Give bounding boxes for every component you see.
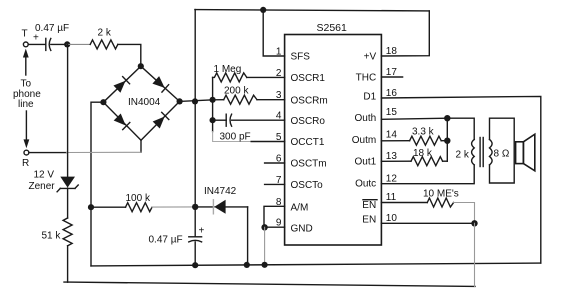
wire pin18 +V to top rail (381, 11, 429, 56)
svg-text:1 Meg: 1 Meg (214, 64, 242, 75)
svg-text:100 k: 100 k (126, 193, 151, 204)
svg-text:A/M: A/M (291, 203, 309, 214)
wire pin8 A/M (264, 206, 285, 227)
wire bottom return line (64, 282, 475, 286)
transformer secondary winding (490, 139, 493, 165)
resistor 2 k (90, 40, 118, 49)
wire OSC vertical bus (212, 77, 214, 131)
svg-text:Outc: Outc (355, 178, 376, 189)
svg-text:EN: EN (362, 200, 376, 211)
node cap-rail junction dot (192, 262, 198, 268)
svg-text:0.47 µF: 0.47 µF (149, 235, 183, 246)
node GND-rail junction dot (262, 262, 268, 268)
svg-text:EN: EN (362, 215, 376, 226)
bridge diode top-right (IN4004) (152, 76, 168, 92)
label 12 V Zener (29, 170, 56, 193)
svg-text:9: 9 (276, 218, 282, 229)
svg-text:SFS: SFS (291, 52, 311, 63)
svg-text:12: 12 (386, 173, 398, 184)
wire capacitor to node A (51, 43, 67, 45)
bridge diode top-left (IN4004) (113, 77, 129, 93)
svg-text:12 V: 12 V (34, 170, 55, 181)
zener diode 12V (57, 177, 78, 192)
svg-text:3.3 k: 3.3 k (412, 127, 435, 138)
wire bridge edge bottom-right (141, 101, 180, 140)
wire secondary loop (490, 118, 515, 183)
wire R to zener bus (29, 152, 66, 154)
svg-text:+: + (199, 226, 205, 237)
wire ground rail (91, 263, 541, 266)
node bridge left junction dot (100, 99, 106, 105)
svg-text:T: T (22, 29, 28, 40)
node 300pF junction dot (210, 117, 216, 123)
node 100k junction dot (88, 204, 94, 210)
wire 51k to bottom return (67, 246, 69, 282)
svg-text:OSCR1: OSCR1 (291, 73, 326, 84)
capacitor 0.47 uF input (46, 38, 51, 50)
bridge diode bottom-left (IN4004) (114, 113, 130, 129)
wire GND down to rail (264, 227, 266, 264)
svg-text:+: + (33, 33, 39, 44)
svg-text:OSCRm: OSCRm (291, 95, 328, 106)
resistor 1 Meg (213, 73, 285, 82)
wire 2k to bridge top (118, 44, 141, 66)
node bus-bridge junction dot (192, 98, 198, 104)
svg-text:8 Ω: 8 Ω (494, 149, 510, 160)
resistor 200 k (213, 95, 285, 104)
wire pin17 THC stub (381, 76, 402, 78)
svg-text:11: 11 (386, 192, 397, 203)
svg-text:17: 17 (386, 67, 398, 78)
wire pin12 Outc to transformer primary bottom (381, 165, 474, 184)
svg-text:4: 4 (276, 111, 282, 122)
svg-text:Zener: Zener (29, 181, 56, 192)
wire bridge edge bottom-left (103, 102, 141, 140)
svg-text:2: 2 (276, 68, 282, 79)
svg-text:10: 10 (386, 213, 398, 224)
svg-text:51 k: 51 k (42, 231, 62, 242)
wire T to capacitor (29, 43, 46, 45)
svg-text:3: 3 (276, 90, 282, 101)
arrow down to R (24, 111, 30, 148)
svg-text:Outh: Outh (355, 113, 377, 124)
node A junction dot (64, 41, 70, 47)
resistor 3.3 k (381, 136, 447, 145)
wire zener to 51k (67, 188, 69, 218)
resistor 100 k (91, 203, 152, 212)
svg-text:10 ME's: 10 ME's (423, 189, 459, 200)
node 3.3k junction dot (444, 138, 450, 144)
svg-text:2 k: 2 k (98, 28, 112, 39)
node bridge right junction dot (177, 98, 183, 104)
node diode junction dot (192, 204, 198, 210)
svg-text:2 k: 2 k (456, 150, 470, 161)
wire bridge edge top-left (103, 66, 140, 102)
svg-text:R: R (22, 158, 29, 169)
wire top rail (195, 10, 429, 11)
svg-text:8: 8 (276, 197, 282, 208)
svg-text:IN4742: IN4742 (204, 186, 237, 197)
wire 100k to diode node (152, 206, 195, 208)
svg-text:OSCTm: OSCTm (291, 159, 327, 170)
capacitor 300 pF (213, 114, 285, 126)
svg-text:15: 15 (386, 107, 398, 118)
wire diode down to ground rail (247, 207, 249, 265)
node GND junction dot (261, 224, 267, 230)
wire main vertical bus x195 upper (194, 10, 196, 237)
node OSC network junction dot (210, 97, 216, 103)
IC pin labels right (352, 52, 377, 226)
svg-text:line: line (18, 99, 34, 110)
wire bridge right to OSCRm node (180, 100, 213, 102)
svg-text:6: 6 (276, 154, 282, 165)
wire R line to bridge bottom (67, 151, 142, 153)
wire bridge bottom to R line (140, 140, 142, 152)
svg-text:300 pF: 300 pF (220, 132, 251, 143)
wire pin5 OCCT1 stub (251, 141, 284, 143)
wire lower cap to ground rail (194, 242, 196, 265)
svg-text:200 k: 200 k (224, 86, 249, 97)
svg-text:THC: THC (356, 73, 377, 84)
wire pin16 D1 to right bus (381, 96, 540, 263)
IC pin numbers left (276, 47, 282, 229)
wire pin7 OSCTo stub (265, 183, 285, 185)
wire pin9 GND (264, 226, 285, 228)
wire pin15 Outh (381, 118, 447, 119)
node Outh junction dot (444, 115, 450, 121)
wire bridge left corner to left bus (91, 102, 103, 266)
IC pin labels left (291, 52, 328, 235)
wire Outh to transformer primary top (447, 118, 474, 139)
wire pin10 EN (381, 222, 474, 224)
svg-text:14: 14 (386, 129, 398, 140)
node SFS top rail junction dot (260, 7, 266, 13)
svg-text:Out1: Out1 (355, 157, 377, 168)
terminal T (23, 42, 28, 47)
label To phone line (13, 79, 41, 111)
svg-text:OSCRo: OSCRo (291, 116, 326, 127)
resistor 18 k (381, 157, 447, 166)
wire OSC vertical bus faint (213, 132, 252, 142)
arrow up to T (23, 49, 29, 75)
svg-text:Outm: Outm (352, 135, 376, 146)
node bridge top junction dot (138, 63, 144, 69)
speaker (516, 134, 535, 171)
wire node A to 2k (67, 43, 90, 45)
svg-text:16: 16 (386, 88, 398, 99)
terminal R (24, 150, 29, 155)
svg-text:IN4004: IN4004 (128, 97, 161, 108)
svg-text:D1: D1 (363, 92, 376, 103)
svg-text:13: 13 (386, 151, 398, 162)
EN overline pin 11 (363, 199, 377, 201)
wire node A down the zener bus (67, 44, 69, 176)
wire Outh bus vertical (446, 118, 448, 161)
IC S2561 box (285, 35, 382, 246)
wire EN node down to bottom return (474, 223, 476, 286)
transformer primary winding 2k (472, 139, 475, 165)
bridge diode bottom-right (IN4004) (153, 112, 169, 128)
diode IN4742 (195, 200, 247, 214)
svg-text:OSCTo: OSCTo (291, 180, 324, 191)
capacitor 0.47 uF lower (189, 237, 202, 242)
node EN junction dot (471, 220, 477, 226)
svg-text:1: 1 (276, 47, 282, 58)
svg-text:0.47 µF: 0.47 µF (35, 23, 69, 34)
wire pin6 OSCTm stub (265, 162, 285, 164)
wire 10ME to EN node (454, 203, 475, 224)
svg-text:5: 5 (276, 132, 282, 143)
node diode-rail junction dot (244, 262, 250, 268)
resistor 10 ME's (381, 198, 453, 207)
svg-text:+V: +V (364, 52, 377, 63)
svg-text:GND: GND (291, 223, 313, 234)
IC pin numbers right (386, 46, 398, 224)
svg-text:OCCT1: OCCT1 (291, 137, 325, 148)
wire top rail to pin1 SFS (263, 10, 284, 56)
resistor 51 k (63, 218, 72, 246)
svg-text:18: 18 (386, 46, 398, 57)
svg-text:To: To (21, 79, 32, 90)
svg-text:7: 7 (276, 175, 282, 186)
wire bridge edge top-right (141, 66, 180, 101)
transformer core (480, 138, 483, 167)
svg-text:S2561: S2561 (317, 22, 348, 34)
svg-text:18 k: 18 k (413, 148, 433, 159)
